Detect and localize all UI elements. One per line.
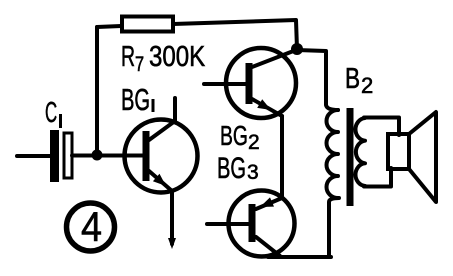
transformer B2 primary winding xyxy=(327,110,339,198)
svg-text:2: 2 xyxy=(248,131,260,154)
node A junction dot xyxy=(92,150,103,161)
transistor BG1 xyxy=(125,98,198,249)
resistor R7 xyxy=(122,17,173,32)
node B junction dot xyxy=(291,43,303,55)
transistor BG2 xyxy=(204,48,296,118)
svg-text:C: C xyxy=(45,98,57,130)
transformer B2 core xyxy=(347,108,354,206)
svg-text:7: 7 xyxy=(135,52,144,75)
svg-text:3: 3 xyxy=(247,161,259,184)
figure number 4 circle xyxy=(67,203,115,251)
wire C1 to node A xyxy=(72,154,97,158)
svg-text:2: 2 xyxy=(361,73,373,98)
svg-text:R: R xyxy=(121,41,135,73)
transformer B2 secondary winding xyxy=(355,118,365,186)
wire node A to BG1 base xyxy=(97,154,143,158)
wire left vertical xyxy=(95,27,99,155)
wire input lead xyxy=(17,154,52,158)
transistor BG3 xyxy=(207,191,295,257)
label C1 xyxy=(45,98,62,130)
wire bottom xyxy=(268,255,331,259)
wire bottom-right vertical to transformer primary bottom xyxy=(329,198,339,257)
wire resistor to top-right corner xyxy=(173,20,297,49)
wire node B to transformer primary top xyxy=(297,50,338,110)
wire secondary top to speaker xyxy=(364,118,399,136)
svg-text:300K: 300K xyxy=(149,40,205,73)
speaker horn xyxy=(409,112,436,202)
speaker driver xyxy=(388,134,409,169)
label BG2 xyxy=(220,121,260,154)
svg-text:4: 4 xyxy=(81,204,102,250)
capacitor C1 xyxy=(50,130,72,182)
svg-text:B: B xyxy=(345,61,360,94)
label R7 300K xyxy=(121,40,205,76)
svg-text:BG: BG xyxy=(121,82,150,118)
svg-text:BG: BG xyxy=(217,152,246,185)
wire top-left xyxy=(97,26,121,27)
wire secondary bottom to speaker xyxy=(364,168,391,187)
svg-text:BG: BG xyxy=(220,121,248,152)
label BG3 xyxy=(217,152,259,185)
wire BG2 emitter to BG3 emitter xyxy=(280,116,284,198)
label BG1 xyxy=(121,82,155,118)
label B2 xyxy=(345,61,373,98)
